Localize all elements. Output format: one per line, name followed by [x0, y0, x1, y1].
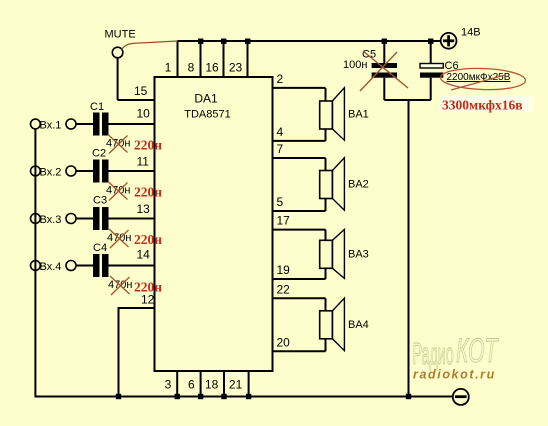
svg-text:21: 21: [229, 378, 243, 392]
speaker BA3 cone: [332, 229, 344, 278]
svg-text:BA4: BA4: [348, 319, 369, 331]
junction dot pin 16: [221, 39, 226, 44]
wire: C6 to join bar: [430, 78, 432, 100]
wire: BA1 vertical connector: [325, 88, 327, 141]
capacitor C5 branch: [343, 39, 408, 101]
svg-text:19: 19: [277, 263, 291, 277]
speaker BA2: [273, 142, 369, 211]
red ellipse around 2200мкФх25В: [440, 67, 526, 91]
wire: C1 to pin 10: [109, 123, 155, 125]
capacitor C2: [93, 160, 109, 183]
junction dot pin 3: [175, 394, 180, 399]
capacitor C6 negative plate: [420, 73, 443, 78]
speaker BA1: [273, 72, 369, 141]
wire: pin 3 vertical: [176, 371, 178, 397]
svg-text:2200мкФх25В: 2200мкФх25В: [447, 72, 511, 83]
wire: pin 23 vertical: [247, 41, 249, 77]
node Вх.1 input terminal: [66, 119, 76, 129]
svg-text:13: 13: [137, 202, 151, 216]
svg-text:12: 12: [141, 293, 155, 307]
svg-text:7: 7: [277, 142, 284, 156]
capacitor C4: [93, 254, 109, 277]
speaker BA1 body: [320, 101, 333, 129]
wire: pin 17 to BA3: [273, 229, 326, 231]
wire: pin 6 vertical: [200, 371, 202, 397]
red cross over 470н C2: [108, 182, 128, 201]
svg-text:1: 1: [165, 61, 172, 75]
svg-text:6: 6: [188, 378, 195, 392]
svg-text:18: 18: [205, 378, 219, 392]
node Вх.3 bus terminal: [31, 214, 41, 224]
node Вх.3 input terminal: [66, 214, 76, 224]
svg-text:3: 3: [165, 378, 172, 392]
wire: input 2 to C2: [76, 170, 93, 172]
speaker BA2 body: [320, 171, 333, 199]
speaker BA2 cone: [332, 158, 344, 210]
speaker BA3 body: [320, 240, 333, 268]
power terminal +14В: [441, 33, 457, 49]
svg-text:14В: 14В: [461, 27, 481, 39]
wire: BA4 vertical connector: [325, 298, 327, 351]
junction dot ground line: [406, 394, 411, 399]
node Вх.4 input terminal: [66, 261, 76, 271]
wire: input 1 to C1: [76, 123, 93, 125]
wire: top supply rail: [178, 40, 441, 42]
wire: pin 15 horizontal: [118, 99, 155, 101]
speaker BA1 cone: [332, 88, 344, 141]
junction dot pin 8: [198, 39, 203, 44]
svg-text:C3: C3: [93, 195, 107, 207]
wire: join bar to ground rail: [408, 100, 410, 397]
svg-text:MUTE: MUTE: [105, 29, 136, 41]
capacitor C6 positive plate (hollow): [420, 64, 443, 69]
wire: rail to C5: [383, 41, 385, 63]
junction dot pin 23: [245, 39, 250, 44]
speaker BA3: [273, 214, 369, 280]
wire: rail to C6: [430, 41, 432, 64]
svg-text:DA1: DA1: [194, 92, 218, 106]
wire: pin 20 to BA4: [273, 350, 326, 352]
wire: pin 1 vertical: [177, 41, 179, 77]
wire: pin 22 to BA4: [273, 297, 326, 299]
wire: C5 to join bar: [383, 78, 385, 100]
junction dot pin 21: [246, 394, 251, 399]
wire: pin 5 to BA2: [273, 210, 326, 212]
wire: pin 21 vertical: [248, 371, 250, 397]
svg-text:14: 14: [137, 248, 151, 262]
wire: pin 19 to BA3: [273, 278, 326, 280]
wire: pin 8 vertical: [200, 41, 202, 77]
svg-text:Радио: Радио: [413, 337, 454, 372]
svg-text:22: 22: [277, 282, 291, 296]
node Вх.4 bus terminal: [31, 261, 41, 271]
svg-text:BA1: BA1: [348, 109, 369, 121]
svg-text:100н: 100н: [343, 59, 367, 71]
junction dot pin 6: [198, 394, 203, 399]
svg-text:20: 20: [277, 335, 291, 349]
svg-text:10: 10: [137, 107, 151, 121]
red cross over 470н C4: [110, 276, 130, 295]
node Вх.2 input terminal: [66, 166, 76, 176]
svg-text:17: 17: [277, 214, 291, 228]
junction dot pin 18: [221, 394, 226, 399]
capacitor C1: [93, 113, 109, 136]
speaker BA4 body: [320, 311, 333, 339]
red cross over 470н C1: [108, 135, 128, 154]
wire: BA2 vertical connector: [325, 158, 327, 211]
svg-text:Вх.4: Вх.4: [40, 261, 62, 273]
svg-text:C4: C4: [93, 242, 107, 254]
wire: MUTE hand-drawn jumper (brown): [122, 41, 178, 50]
red cross over C5: [360, 51, 408, 91]
svg-text:TDA8571: TDA8571: [184, 109, 230, 121]
capacitor C3: [93, 207, 109, 230]
node Вх.1 bus terminal: [31, 119, 41, 129]
svg-text:220н: 220н: [134, 232, 162, 247]
wire: pin 18 vertical: [223, 371, 225, 397]
red cross over 470н C3: [109, 229, 129, 248]
wire: pin 7 to BA2: [273, 157, 326, 159]
wire: pin 4 to BA1: [273, 140, 326, 142]
svg-text:11: 11: [137, 155, 150, 169]
svg-text:Вх.3: Вх.3: [40, 214, 62, 226]
wire: C4 to pin 14: [109, 265, 155, 267]
wire: BA3 vertical connector: [325, 230, 327, 279]
wire: MUTE vertical to pin 15: [117, 58, 119, 100]
wire: pin 16 vertical: [223, 41, 225, 77]
capacitor C6 branch (electrolytic): [420, 39, 534, 113]
svg-text:8: 8: [188, 61, 195, 75]
svg-text:C1: C1: [90, 101, 104, 113]
svg-text:23: 23: [229, 61, 243, 75]
svg-text:16: 16: [205, 61, 219, 75]
wire: pin 12 to ground: [119, 308, 155, 397]
op-amp IC U1 body DA1: [155, 77, 273, 371]
svg-text:220н: 220н: [134, 138, 162, 153]
svg-text:2: 2: [277, 72, 284, 86]
junction dot pin 12 at ground: [116, 394, 121, 399]
speaker BA4: [273, 282, 369, 351]
node Вх.2 bus terminal: [31, 166, 41, 176]
junction dot C6 at rail: [428, 39, 433, 44]
svg-text:Вх.2: Вх.2: [40, 167, 62, 179]
watermark Радио КОТ: [413, 331, 499, 372]
corrected value 3300мкфх16в (red): [439, 96, 534, 112]
capacitor C5 plates: [372, 63, 397, 68]
wire: C2 to pin 11: [109, 170, 155, 172]
svg-text:15: 15: [134, 84, 148, 98]
wire: C3 to pin 13: [109, 218, 155, 220]
svg-text:3300мкфх16в: 3300мкфх16в: [442, 98, 523, 113]
wire: C5/C6 join bar: [384, 99, 430, 101]
wire: left input ground bus: [34, 129, 36, 397]
MUTE terminal circle: [112, 47, 123, 58]
speaker BA4 cone: [332, 298, 344, 351]
junction dot C5 at rail: [382, 39, 387, 44]
svg-text:Вх.1: Вх.1: [40, 120, 62, 132]
wire: input 3 to C3: [76, 218, 93, 220]
wire: pin 2 to BA1: [273, 87, 326, 89]
svg-text:КОТ: КОТ: [456, 331, 499, 369]
svg-text:220н: 220н: [134, 185, 162, 200]
svg-text:BA3: BA3: [348, 248, 369, 260]
wire: input 4 to C4: [76, 265, 93, 267]
wire: ground rail (bottom): [35, 396, 453, 398]
svg-text:C2: C2: [92, 148, 106, 160]
svg-text:4: 4: [277, 125, 284, 139]
svg-text:radiokot.ru: radiokot.ru: [413, 368, 496, 382]
svg-text:BA2: BA2: [348, 179, 369, 191]
ground terminal (minus): [453, 389, 469, 405]
svg-text:5: 5: [277, 195, 284, 209]
